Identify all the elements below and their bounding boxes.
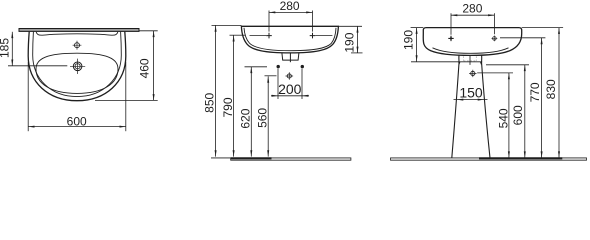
dim 770 bbox=[500, 38, 545, 158]
dim 540 bbox=[477, 73, 513, 158]
svg-text:150: 150 bbox=[459, 84, 483, 100]
dim 280 (right) bbox=[451, 13, 494, 35]
hidden drain dashed box bbox=[464, 56, 477, 61]
back rim arc bbox=[36, 32, 118, 35]
pedestal right edge bbox=[482, 56, 490, 158]
water supply symbol (right) bbox=[471, 71, 475, 75]
basin profile inner line bbox=[244, 28, 336, 51]
drain center line (right view) bbox=[469, 56, 471, 65]
svg-text:460: 460 bbox=[138, 58, 152, 78]
svg-text:190: 190 bbox=[402, 30, 416, 50]
dim 790 bbox=[230, 35, 246, 156]
dim 460 bbox=[95, 31, 158, 101]
wall bar (back edge) bbox=[19, 29, 139, 32]
basin profile outer bbox=[241, 26, 338, 53]
basin inner rim line bbox=[33, 32, 122, 97]
svg-text:830: 830 bbox=[544, 79, 558, 99]
svg-text:850: 850 bbox=[203, 92, 217, 112]
mounting hole marks bbox=[266, 33, 272, 39]
dim 190 (right) bbox=[411, 28, 482, 62]
dim 150 bbox=[454, 99, 488, 101]
dim 200 bbox=[271, 69, 309, 99]
bowl bbox=[36, 53, 118, 93]
svg-text:280: 280 bbox=[280, 0, 300, 13]
svg-text:600: 600 bbox=[67, 115, 87, 129]
dim 600 bbox=[28, 62, 126, 131]
svg-text:190: 190 bbox=[343, 32, 357, 52]
floor line (middle, thin) bbox=[211, 157, 231, 159]
dim 280 (middle) bbox=[269, 11, 313, 32]
dim 560 bbox=[265, 76, 277, 157]
svg-text:790: 790 bbox=[221, 97, 235, 117]
svg-text:600: 600 bbox=[511, 105, 525, 125]
svg-text:770: 770 bbox=[528, 82, 542, 102]
svg-text:185: 185 bbox=[0, 38, 12, 58]
drain center line bbox=[289, 53, 291, 62]
svg-text:560: 560 bbox=[256, 108, 270, 128]
basin front inner bottom line bbox=[433, 48, 509, 54]
floor band (middle) bbox=[231, 158, 351, 160]
svg-text:280: 280 bbox=[462, 1, 482, 15]
dim 185 bbox=[8, 32, 67, 66]
svg-text:200: 200 bbox=[278, 81, 302, 97]
svg-text:620: 620 bbox=[239, 108, 253, 128]
dim 190 (middle) bbox=[339, 26, 363, 53]
dim 850 bbox=[212, 25, 242, 156]
wall fixing dots bbox=[277, 65, 280, 68]
drain fitting box bbox=[282, 53, 299, 60]
faucet hole bbox=[73, 41, 82, 50]
floor band (right) bbox=[391, 158, 587, 160]
pedestal left edge bbox=[452, 56, 459, 158]
svg-text:540: 540 bbox=[497, 108, 511, 128]
water supply symbol (middle) bbox=[286, 72, 294, 80]
dim 830 bbox=[522, 28, 563, 158]
basin front outer bbox=[423, 28, 521, 56]
mounting hole marks (right) bbox=[448, 36, 497, 42]
drain symbol bbox=[70, 59, 85, 74]
pedestal top left tip bbox=[458, 62, 460, 65]
dim 620 bbox=[245, 67, 268, 157]
pedestal top right tip bbox=[480, 62, 482, 65]
dim 600 (right) bbox=[486, 65, 529, 158]
basin outer outline bbox=[28, 32, 126, 101]
